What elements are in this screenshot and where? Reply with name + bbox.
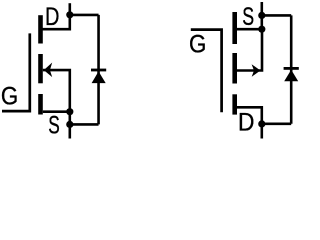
svg-text:D: D bbox=[45, 3, 59, 31]
svg-text:G: G bbox=[1, 83, 18, 110]
svg-text:D: D bbox=[238, 108, 254, 136]
svg-text:G: G bbox=[189, 31, 206, 58]
svg-text:S: S bbox=[48, 111, 60, 139]
svg-text:S: S bbox=[242, 2, 254, 31]
